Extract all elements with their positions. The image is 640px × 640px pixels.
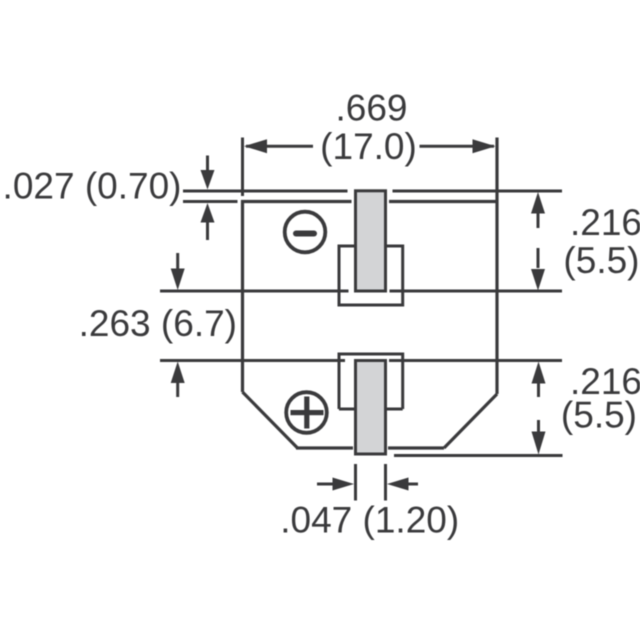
body left edge (241, 200, 244, 392)
extension line left for .669 dimension (241, 138, 244, 197)
body chamfer bottom-right (444, 394, 497, 448)
body top edge (seating plane) left segment (241, 200, 352, 203)
plus polarity symbol (286, 392, 327, 433)
svg-text:(5.5): (5.5) (561, 394, 637, 435)
body bottom edge right segment (388, 446, 444, 449)
lower terminal recess bracket (339, 354, 403, 409)
svg-text:.669: .669 (335, 87, 407, 128)
body top edge right segment (389, 200, 499, 203)
svg-text:.216: .216 (570, 202, 640, 243)
extension line right for .047 dimension (384, 464, 387, 501)
extension line left for .047 dimension (354, 464, 357, 501)
terminal pad upper (negative) (356, 191, 386, 291)
wire: reference line L1 top-of-terminal right segment (393, 190, 563, 193)
wire: reference line L4 inner edge lower terminal (y=360.5) left segment (160, 359, 345, 362)
wire: reference line L3 inner edge upper terminal (y=291) left segment (160, 290, 349, 293)
wire: reference line L4 right segment (389, 359, 562, 362)
svg-text:.027 (0.70): .027 (0.70) (3, 166, 182, 207)
body chamfer bottom-left (243, 392, 298, 448)
dimension .047 (1.20) arrows (317, 478, 418, 491)
svg-text:(5.5): (5.5) (563, 240, 639, 281)
dimension .027 (0.70) arrows (201, 156, 215, 241)
wire: reference line bottom of .027 dimension left of body (183, 200, 238, 203)
svg-text:(17.0): (17.0) (320, 126, 417, 167)
minus polarity symbol (285, 212, 326, 253)
wire: reference line L3 right segment (390, 290, 563, 293)
svg-text:.263 (6.7): .263 (6.7) (79, 303, 237, 344)
upper terminal recess bracket (339, 246, 403, 305)
terminal pad lower (positive) (356, 361, 386, 455)
dimension .216 (5.5) upper arrows (531, 192, 545, 291)
extension line right for .669 dimension and body right edge (495, 138, 498, 395)
lower bracket bottom edge left segment (339, 408, 356, 411)
svg-text:.047 (1.20): .047 (1.20) (280, 499, 459, 540)
lower bracket bottom edge right segment (385, 408, 403, 411)
dimension .263 (6.7) arrows (171, 253, 185, 397)
wire: reference line L6 bottom of lower terminal (y=455.5) (394, 454, 563, 457)
body bottom edge left segment (296, 446, 353, 449)
dimension .669 (17.0) line with arrows (244, 139, 496, 153)
wire: reference line L1 top-of-terminal (y=191) left segment (183, 190, 348, 193)
dimension .216 (5.5) lower arrows (532, 362, 546, 455)
